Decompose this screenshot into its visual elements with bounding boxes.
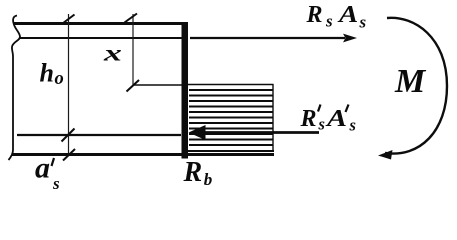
dimension line h_o (vertical at x=68.5)	[68, 14, 70, 154]
svg-text:A: A	[337, 0, 358, 27]
svg-text:s: s	[359, 13, 367, 32]
stress block outline (concrete compression zone)	[188, 84, 274, 152]
svg-text:a: a	[35, 152, 50, 185]
wire: tension steel level line	[20, 37, 182, 39]
moment arc M	[385, 18, 447, 154]
tick at bottom of x dimension	[127, 80, 140, 92]
svg-text:x: x	[103, 41, 122, 66]
wire: compression steel level line	[17, 134, 181, 136]
wire: beam bottom face	[12, 153, 274, 156]
svg-text:s: s	[52, 174, 60, 192]
tick at top of x dimension	[125, 14, 138, 23]
tick at top of h_o dimension	[63, 15, 75, 24]
wire: beam top face	[14, 22, 184, 25]
wire: stress block top connector	[133, 84, 188, 86]
svg-text:s: s	[349, 116, 356, 135]
label R_s A_s	[306, 0, 367, 31]
svg-text:A: A	[325, 105, 347, 132]
label R'_s A'_s	[300, 105, 356, 135]
tick at bottom face on h_o line	[63, 149, 75, 161]
wire: left break line (squiggle edge)	[9, 16, 21, 161]
section face bar (R_b bearing line)	[182, 22, 189, 159]
prime mark of a'	[52, 158, 55, 166]
svg-text:R: R	[300, 106, 317, 132]
hatch lines of stress block	[189, 90, 273, 145]
force arrow R'_s A'_s (compression steel force)	[189, 125, 320, 140]
svg-text:s: s	[325, 12, 333, 31]
prime mark after R'	[318, 105, 321, 112]
svg-text:R: R	[306, 2, 323, 28]
svg-text:s: s	[318, 115, 325, 134]
prime mark after A'	[346, 105, 349, 113]
force arrow R_s A_s (tension steel force)	[190, 34, 357, 43]
svg-text:M: M	[394, 63, 427, 100]
moment arrowhead	[378, 150, 393, 160]
dimension line x (vertical at x=133)	[132, 14, 134, 85]
tick at compression steel level on h_o line	[62, 129, 75, 142]
